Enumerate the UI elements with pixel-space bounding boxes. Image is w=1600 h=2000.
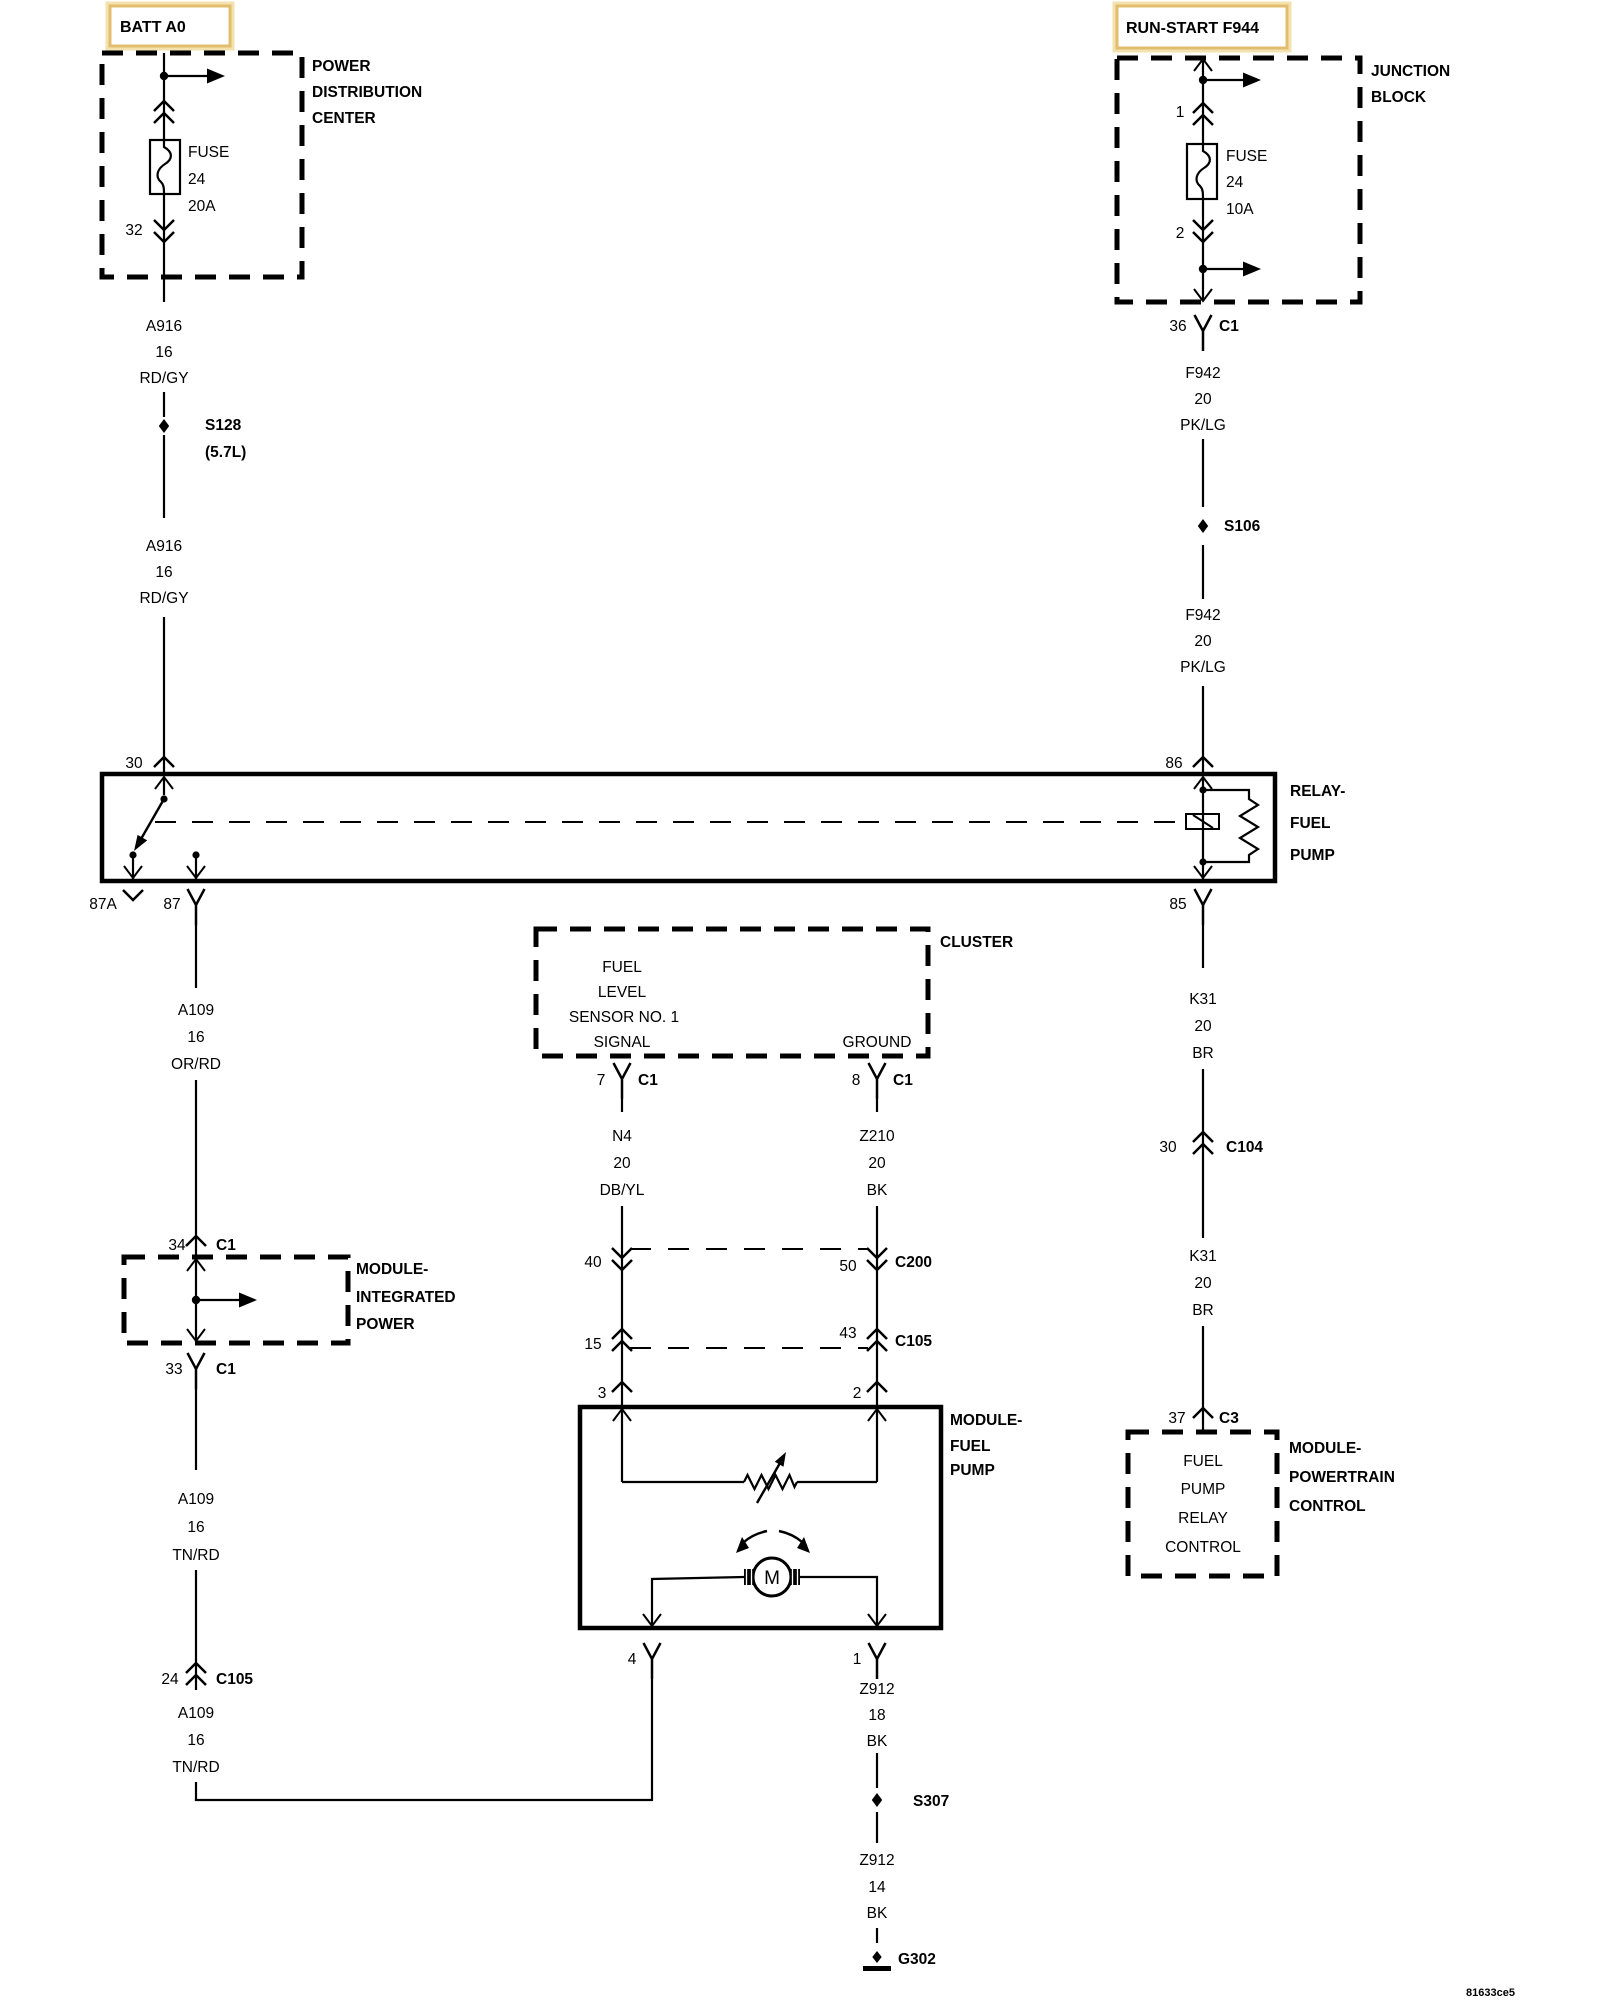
svg-text:16: 16 [155, 564, 172, 581]
wire S106 down [1202, 545, 1204, 599]
arrowhead pin 3 entering module [613, 1409, 631, 1421]
connector chevrons pin 1 [1193, 103, 1213, 125]
svg-text:DB/YL: DB/YL [600, 1182, 645, 1199]
svg-text:C104: C104 [1226, 1139, 1263, 1156]
svg-text:FUEL: FUEL [1183, 1453, 1223, 1470]
arrow to other circuits (JB upper) [1203, 73, 1261, 88]
wire 87A contact to box edge [132, 855, 134, 879]
svg-text:FUSE: FUSE [1226, 148, 1267, 165]
svg-text:50: 50 [839, 1258, 857, 1275]
pin 1 label [1176, 104, 1185, 121]
connector 1 (female) [869, 1643, 886, 1679]
arrowhead 87 leaving relay [187, 866, 205, 878]
svg-text:Z912: Z912 [859, 1852, 894, 1869]
svg-text:15: 15 [584, 1336, 601, 1353]
arrowhead pin 86 entering relay [1194, 777, 1212, 789]
feed box RUN-START F944 [1115, 4, 1289, 50]
svg-text:C3: C3 [1219, 1410, 1239, 1427]
pin 7 label [597, 1072, 606, 1089]
label C1 (pin 36) [1219, 318, 1239, 335]
connector chevrons 43 C105 [867, 1329, 887, 1351]
svg-text:FUEL: FUEL [602, 959, 642, 976]
svg-text:BLOCK: BLOCK [1371, 89, 1427, 106]
node 87 contact [192, 851, 199, 858]
arrowhead 87A leaving relay [124, 866, 142, 878]
junction block box [1117, 58, 1360, 302]
svg-text:F942: F942 [1185, 365, 1220, 382]
wire motor left to pin 4 [652, 1577, 744, 1628]
pin 34 label [168, 1237, 186, 1254]
node switch pivot [160, 795, 167, 802]
wire 87 contact to box edge [195, 855, 197, 879]
svg-text:POWERTRAIN: POWERTRAIN [1289, 1469, 1395, 1486]
svg-text:20: 20 [613, 1155, 631, 1172]
connector 4 (female) [644, 1643, 661, 1679]
pin 43 label [839, 1325, 856, 1342]
svg-text:CENTER: CENTER [312, 110, 376, 127]
svg-text:C1: C1 [893, 1072, 913, 1089]
svg-text:1: 1 [853, 1651, 862, 1668]
svg-text:16: 16 [187, 1519, 204, 1536]
svg-text:CONTROL: CONTROL [1289, 1498, 1366, 1515]
motor brush right [790, 1569, 800, 1585]
wire Z210 ground down [876, 1206, 878, 1482]
connector chevron pin 30 [154, 757, 174, 767]
svg-text:20: 20 [1194, 633, 1212, 650]
label S128 (5.7L) [205, 417, 246, 461]
svg-text:Z912: Z912 [859, 1681, 894, 1698]
ground G302 [863, 1951, 891, 1971]
svg-text:RUN-START F944: RUN-START F944 [1126, 20, 1259, 37]
wire A109 to connector 24 [195, 1570, 197, 1690]
svg-text:14: 14 [868, 1879, 886, 1896]
connector 8 C1 (female) [869, 1063, 886, 1099]
pin 50 label [839, 1258, 857, 1275]
label C200 [895, 1254, 932, 1271]
svg-text:16: 16 [155, 344, 172, 361]
label FUSE 24 10A [1226, 148, 1267, 218]
pin 85 label [1169, 896, 1186, 913]
pin 3 label [598, 1385, 607, 1402]
wire S307 down [876, 1812, 878, 1843]
svg-text:4: 4 [628, 1651, 637, 1668]
connector 87 (female) [188, 889, 205, 925]
pin 30 label (C104) [1159, 1139, 1177, 1156]
wire vertical up to pin 4 [651, 1679, 653, 1801]
label S106 [1224, 518, 1261, 535]
arrow to other circuits (MIP) [196, 1293, 257, 1308]
pin 8 label [852, 1072, 861, 1089]
relay-fuel pump box [102, 774, 1275, 881]
splice S128 [159, 419, 169, 433]
label N4 20 DB/YL [600, 1128, 645, 1199]
pin 86 label [1165, 755, 1182, 772]
svg-text:DISTRIBUTION: DISTRIBUTION [312, 84, 422, 101]
svg-text:8: 8 [852, 1072, 861, 1089]
wire 85 down to K31 label [1202, 925, 1204, 968]
pin 87 label [163, 896, 180, 913]
label C3 [1219, 1410, 1239, 1427]
connector chevrons above fuse [154, 101, 174, 123]
label C105 (pin 24) [216, 1671, 253, 1688]
label G302 [898, 1951, 936, 1968]
svg-text:K31: K31 [1189, 1248, 1217, 1265]
relay switch arm (30 to 87A) [134, 799, 164, 851]
wire horizontal run to fuel pump pin 4 [195, 1799, 652, 1801]
svg-text:MODULE-: MODULE- [356, 1261, 428, 1278]
label K31 20 BR (lower) [1189, 1248, 1217, 1319]
wire motor right to pin 1 [800, 1577, 877, 1628]
svg-text:2: 2 [853, 1385, 862, 1402]
label C105 (in-line) [895, 1333, 932, 1350]
svg-text:G302: G302 [898, 1951, 936, 1968]
label MODULE- FUEL PUMP [950, 1412, 1022, 1479]
label RELAY- FUEL PUMP [1290, 783, 1345, 864]
wire to ground G302 [876, 1928, 878, 1943]
wire level sensor right lead [797, 1481, 877, 1483]
svg-text:RD/GY: RD/GY [139, 370, 188, 387]
svg-text:C1: C1 [1219, 318, 1239, 335]
svg-text:M: M [764, 1568, 780, 1589]
svg-text:MODULE-: MODULE- [950, 1412, 1022, 1429]
connector chevrons 24 C105 [186, 1663, 206, 1685]
svg-text:C1: C1 [638, 1072, 658, 1089]
wire K31 to pin 37 [1202, 1326, 1204, 1433]
label JUNCTION BLOCK [1371, 63, 1450, 106]
svg-text:87: 87 [163, 896, 180, 913]
svg-text:BK: BK [867, 1905, 888, 1922]
svg-text:C105: C105 [216, 1671, 253, 1688]
wire 87 down to A109 label [195, 925, 197, 988]
label Z912 14 BK [859, 1852, 894, 1922]
label CLUSTER [940, 934, 1013, 951]
label Z912 18 BK [859, 1681, 894, 1750]
label C1 (pin 7) [638, 1072, 658, 1089]
variable resistor wiper arrow [757, 1452, 786, 1503]
connector chevron pin 2 (module) [867, 1382, 887, 1392]
svg-text:7: 7 [597, 1072, 606, 1089]
svg-text:C200: C200 [895, 1254, 932, 1271]
label A109 16 OR/RD [171, 1002, 221, 1073]
cluster box [536, 929, 928, 1056]
pin 24 label [161, 1671, 179, 1688]
label A916 16 RD/GY (lower) [139, 538, 188, 607]
svg-text:FUEL: FUEL [950, 1438, 990, 1455]
wire A109 down to corner [195, 1782, 197, 1801]
wire to splice S128 [163, 392, 165, 417]
svg-text:C105: C105 [895, 1333, 932, 1350]
svg-text:BR: BR [1192, 1302, 1214, 1319]
label POWER DISTRIBUTION CENTER [312, 58, 422, 127]
connector chevrons 40 C200 [612, 1248, 632, 1270]
svg-text:A916: A916 [146, 538, 182, 555]
svg-text:PK/LG: PK/LG [1180, 417, 1226, 434]
connector chevrons 30 C104 [1193, 1132, 1213, 1154]
module-powertrain control box [1128, 1432, 1277, 1576]
arrowhead down leaving JB [1194, 289, 1212, 301]
wire F942 to relay pin 86 [1202, 686, 1204, 775]
connector chevron pin 37 [1193, 1408, 1213, 1418]
svg-text:Z210: Z210 [859, 1128, 895, 1145]
connector 85 (female) [1195, 889, 1212, 925]
connector chevron pin 3 [612, 1382, 632, 1392]
wire A109 to pin 34 [195, 1080, 197, 1342]
label Z210 20 BK [859, 1128, 895, 1199]
label A916 16 RD/GY (upper) [139, 318, 188, 387]
pin 15 label [584, 1336, 601, 1353]
label MODULE- INTEGRATED POWER [356, 1261, 456, 1333]
svg-text:K31: K31 [1189, 991, 1217, 1008]
svg-text:BK: BK [867, 1182, 888, 1199]
svg-text:MODULE-: MODULE- [1289, 1440, 1361, 1457]
wire A916 to relay pin 30 [163, 617, 165, 775]
wire run-start feed in JB [1202, 60, 1204, 144]
svg-text:A916: A916 [146, 318, 182, 335]
feed box BATT A0 [108, 4, 232, 48]
pin 1 label (below module) [853, 1651, 862, 1668]
arrowhead 85 leaving relay [1194, 866, 1212, 878]
pin 87A label [89, 896, 117, 913]
label MODULE- POWERTRAIN CONTROL [1289, 1440, 1395, 1515]
label C104 [1226, 1139, 1263, 1156]
connector chevrons 50 C200 [867, 1248, 887, 1270]
node coil bottom [1199, 858, 1206, 865]
svg-text:24: 24 [161, 1671, 179, 1688]
svg-text:30: 30 [125, 755, 143, 772]
arrow to other circuits (PDC) [164, 69, 225, 84]
svg-text:BK: BK [867, 1733, 888, 1750]
wire fuse to A916 label [163, 194, 165, 302]
node junction in MIP [192, 1296, 200, 1304]
svg-text:S128: S128 [205, 417, 242, 434]
svg-text:43: 43 [839, 1325, 856, 1342]
svg-text:LEVEL: LEVEL [598, 984, 647, 1001]
svg-text:S307: S307 [913, 1793, 949, 1810]
motor rotation arrow left [736, 1531, 767, 1553]
svg-text:TN/RD: TN/RD [172, 1759, 219, 1776]
svg-text:20A: 20A [188, 198, 216, 215]
wire level sensor left lead [622, 1481, 744, 1483]
svg-text:32: 32 [125, 222, 142, 239]
label S307 [913, 1793, 949, 1810]
wire F942 to splice S106 [1202, 439, 1204, 507]
pin 32 label [125, 222, 142, 239]
pin 2 label (module) [853, 1385, 862, 1402]
label FUSE 24 20A [188, 144, 229, 215]
node 87A contact [129, 851, 136, 858]
svg-text:C1: C1 [216, 1237, 236, 1254]
splice S307 [872, 1793, 882, 1807]
svg-text:CONTROL: CONTROL [1165, 1539, 1241, 1556]
label FUEL PUMP RELAY CONTROL (inside) [1165, 1453, 1241, 1556]
svg-text:POWER: POWER [356, 1316, 415, 1333]
dashed actuation link switch to coil [155, 821, 1186, 823]
node junction upper (JB) [1199, 76, 1207, 84]
svg-text:16: 16 [187, 1029, 204, 1046]
svg-text:A109: A109 [178, 1491, 214, 1508]
label K31 20 BR (upper) [1189, 991, 1217, 1062]
svg-text:BATT A0: BATT A0 [120, 19, 186, 36]
arrowhead pin 30 entering relay [155, 777, 173, 789]
label GROUND [843, 1034, 912, 1051]
svg-text:POWER: POWER [312, 58, 371, 75]
relay coil core symbol [1186, 814, 1219, 829]
pin 4 label [628, 1651, 637, 1668]
svg-text:RELAY: RELAY [1178, 1510, 1228, 1527]
arrowhead entering MIP box [187, 1259, 205, 1271]
svg-text:RELAY-: RELAY- [1290, 783, 1345, 800]
svg-text:GROUND: GROUND [843, 1034, 912, 1051]
svg-text:18: 18 [868, 1707, 885, 1724]
motor brush left [744, 1569, 754, 1585]
svg-text:S106: S106 [1224, 518, 1261, 535]
svg-text:16: 16 [187, 1732, 204, 1749]
svg-text:10A: 10A [1226, 201, 1254, 218]
label C1 (pin 34) [216, 1237, 236, 1254]
module-fuel pump box [580, 1407, 941, 1628]
node junction lower (JB) [1199, 265, 1207, 273]
svg-text:34: 34 [168, 1237, 186, 1254]
svg-text:40: 40 [584, 1254, 602, 1271]
pin 33 label [165, 1361, 182, 1378]
svg-text:PK/LG: PK/LG [1180, 659, 1226, 676]
wire K31 to connector C104 [1202, 1069, 1204, 1238]
label A109 16 TN/RD (lower) [172, 1705, 219, 1776]
svg-text:FUEL: FUEL [1290, 815, 1330, 832]
wire pin 30 to switch pivot [163, 777, 165, 795]
pin 40 label [584, 1254, 602, 1271]
connector 33 C1 (female) [188, 1353, 205, 1389]
svg-text:CLUSTER: CLUSTER [940, 934, 1013, 951]
svg-text:1: 1 [1176, 104, 1185, 121]
label A109 16 TN/RD (upper) [172, 1491, 219, 1564]
svg-text:85: 85 [1169, 896, 1186, 913]
svg-text:JUNCTION: JUNCTION [1371, 63, 1450, 80]
connector 7 C1 (female) [614, 1063, 631, 1099]
dashed connector link C200 [630, 1248, 868, 1250]
label F942 20 PK/LG (upper) [1180, 365, 1226, 434]
fuel level sensor variable resistor [744, 1475, 797, 1489]
connector chevrons below fuse (pin 32) [154, 220, 174, 242]
connector chevrons pin 2 [1193, 220, 1213, 242]
pin 37 label [1168, 1410, 1185, 1427]
svg-text:3: 3 [598, 1385, 607, 1402]
coil winding resistor zigzag [1203, 790, 1258, 862]
svg-text:20: 20 [868, 1155, 886, 1172]
svg-text:SIGNAL: SIGNAL [594, 1034, 651, 1051]
svg-text:33: 33 [165, 1361, 182, 1378]
svg-text:C1: C1 [216, 1361, 236, 1378]
label F942 20 PK/LG (lower) [1180, 607, 1226, 676]
svg-text:PUMP: PUMP [1181, 1481, 1226, 1498]
wire fuse to JB bottom [1202, 199, 1204, 301]
dashed connector link C105 [630, 1347, 868, 1349]
svg-text:RD/GY: RD/GY [139, 590, 188, 607]
wire stub below pin 7 [621, 1099, 623, 1112]
label C1 (pin 33) [216, 1361, 236, 1378]
arrowhead pin 2 entering module [868, 1409, 886, 1421]
svg-text:SENSOR NO. 1: SENSOR NO. 1 [569, 1009, 679, 1026]
svg-text:30: 30 [1159, 1139, 1177, 1156]
svg-text:INTEGRATED: INTEGRATED [356, 1289, 456, 1306]
fuse 24 20A (PDC) [150, 140, 180, 194]
pin 36 label [1169, 318, 1186, 335]
svg-text:FUSE: FUSE [188, 144, 229, 161]
svg-text:2: 2 [1176, 225, 1185, 242]
module-integrated power box [124, 1257, 348, 1343]
svg-text:37: 37 [1168, 1410, 1185, 1427]
wire stub below pin 8 [876, 1099, 878, 1112]
power distribution center box [102, 53, 302, 277]
page code 81633ce5 [1466, 1987, 1515, 1999]
wire Z912 to splice S307 [876, 1753, 878, 1788]
svg-text:BR: BR [1192, 1045, 1214, 1062]
svg-text:24: 24 [1226, 174, 1244, 191]
wire batt feed down to fuse 24 [163, 53, 165, 140]
arrowhead pin 1 leaving module [868, 1614, 886, 1626]
svg-text:(5.7L): (5.7L) [205, 444, 246, 461]
arrowhead pin 4 leaving module [643, 1614, 661, 1626]
wire S128 down [163, 435, 165, 518]
svg-text:OR/RD: OR/RD [171, 1056, 221, 1073]
svg-text:PUMP: PUMP [950, 1462, 995, 1479]
svg-text:20: 20 [1194, 391, 1212, 408]
svg-text:20: 20 [1194, 1275, 1212, 1292]
arrowhead leaving MIP box [187, 1329, 205, 1341]
label C1 (pin 8) [893, 1072, 913, 1089]
svg-text:N4: N4 [612, 1128, 632, 1145]
pin 2 label [1176, 225, 1185, 242]
wire N4 signal down [621, 1206, 623, 1482]
wire 33 down [195, 1389, 197, 1470]
fuse 24 10A (JB) [1187, 144, 1217, 199]
label FUEL LEVEL SENSOR NO. 1 SIGNAL [569, 959, 679, 1051]
motor rotation arrow right [779, 1531, 810, 1553]
connector chevron pin 34 [186, 1236, 206, 1246]
svg-text:36: 36 [1169, 318, 1186, 335]
connector chevron 87A (below relay) [123, 890, 143, 900]
wire coil vertical 86 to 85 [1202, 777, 1204, 879]
splice S106 [1198, 519, 1208, 533]
svg-text:20: 20 [1194, 1018, 1212, 1035]
svg-text:A109: A109 [178, 1002, 214, 1019]
svg-text:PUMP: PUMP [1290, 847, 1335, 864]
connector chevrons 15 C105 [612, 1329, 632, 1351]
arrowhead up to feed (JB top) [1194, 59, 1212, 71]
svg-text:F942: F942 [1185, 607, 1220, 624]
pin 30 label [125, 755, 143, 772]
arrow to other circuits (JB lower) [1203, 262, 1261, 277]
svg-text:87A: 87A [89, 896, 117, 913]
node junction in PDC [160, 72, 168, 80]
node coil top [1199, 786, 1206, 793]
svg-text:A109: A109 [178, 1705, 214, 1722]
fuel pump motor M [753, 1558, 791, 1596]
svg-text:24: 24 [188, 171, 206, 188]
connector 36 C1 (female) [1195, 315, 1212, 351]
svg-text:86: 86 [1165, 755, 1182, 772]
svg-text:TN/RD: TN/RD [172, 1547, 219, 1564]
connector chevron pin 86 [1193, 757, 1213, 767]
svg-text:81633ce5: 81633ce5 [1466, 1987, 1515, 1999]
